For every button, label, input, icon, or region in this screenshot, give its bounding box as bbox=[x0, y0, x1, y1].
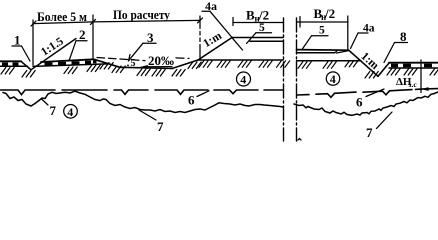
svg-text:/2: /2 bbox=[258, 8, 269, 23]
svg-text:4: 4 bbox=[240, 73, 246, 87]
svg-text:5: 5 bbox=[319, 25, 325, 37]
svg-text:з.с: з.с bbox=[409, 80, 418, 89]
band top left bbox=[0, 60, 21, 62]
band top mid bbox=[41, 59, 94, 62]
dimension "Более 5 м" bbox=[31, 15, 96, 65]
circled 4 left1 bbox=[64, 105, 78, 119]
ditch right slope 1:1.5 bbox=[31, 39, 76, 70]
svg-text:По расчету: По расчету bbox=[113, 7, 170, 22]
right layer bottom bbox=[297, 52, 335, 54]
svg-text:6: 6 bbox=[356, 95, 363, 110]
svg-text:6: 6 bbox=[188, 93, 195, 108]
ground hatching right bbox=[298, 60, 438, 78]
right band rects bbox=[391, 64, 432, 68]
svg-text:5: 5 bbox=[131, 58, 136, 69]
ditch left slope bbox=[21, 61, 31, 70]
band bottom mid bbox=[33, 64, 107, 67]
right band bottom bbox=[389, 67, 438, 69]
svg-text:4: 4 bbox=[67, 105, 73, 119]
embankment slope 1:m bbox=[198, 38, 232, 61]
delta H vertical bbox=[420, 60, 422, 93]
slope arrow bbox=[145, 66, 172, 68]
band rects bbox=[2, 60, 97, 66]
circled 4 right bbox=[326, 72, 339, 85]
embankment top surface bbox=[232, 37, 283, 39]
svg-text:7: 7 bbox=[157, 119, 164, 134]
svg-text:Более 5 м: Более 5 м bbox=[37, 9, 87, 24]
delta H arrowhead bbox=[422, 87, 429, 91]
right ground line bbox=[297, 60, 362, 62]
svg-text:7: 7 bbox=[366, 125, 373, 140]
protective layer bottom bbox=[250, 40, 283, 42]
centerline left bbox=[283, 18, 285, 141]
band bottom left bbox=[0, 65, 28, 67]
bedrock line 7 left (jagged) bbox=[3, 91, 283, 112]
trench rise bbox=[172, 60, 198, 69]
dimension Bн/2 left bbox=[233, 22, 283, 24]
dimension Bн/2 right bbox=[297, 21, 349, 23]
svg-text:4: 4 bbox=[330, 72, 336, 86]
ground hatching left bbox=[1, 61, 290, 77]
circled 4 left2 bbox=[237, 72, 251, 86]
svg-text:20‰: 20‰ bbox=[148, 53, 174, 68]
right top surface bbox=[297, 49, 349, 52]
svg-text:1: 1 bbox=[14, 33, 21, 48]
bedrock line 7 right (jagged) bbox=[294, 92, 438, 115]
trench left slope bbox=[94, 59, 120, 67]
small mark bbox=[298, 139, 301, 141]
right band top bbox=[389, 62, 438, 64]
shoulder corner ray bbox=[232, 38, 243, 50]
dimension "По расчету" bbox=[93, 16, 203, 60]
trench bottom bbox=[120, 67, 172, 68]
right ditch up slope bbox=[378, 63, 389, 76]
old surface dashed bbox=[97, 58, 145, 61]
right ditch down slope bbox=[349, 50, 378, 76]
tiny 1:5 mark bbox=[129, 55, 131, 61]
frost line 6 right bbox=[297, 89, 438, 98]
frost line 6 left (dashed with notches) bbox=[0, 90, 283, 95]
right layer wedge bbox=[335, 51, 337, 53]
svg-text:2: 2 bbox=[79, 27, 86, 42]
svg-text:/2: /2 bbox=[324, 6, 335, 21]
ground base line bbox=[198, 59, 283, 61]
centerline right bbox=[296, 18, 298, 141]
svg-text:7: 7 bbox=[50, 103, 57, 118]
svg-text:8: 8 bbox=[400, 29, 407, 44]
